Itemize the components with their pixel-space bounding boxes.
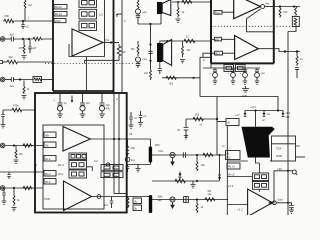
svg-text:1N: 1N [267, 113, 270, 116]
electrolytic C20 [136, 9, 147, 24]
Vcc rail [245, 110, 283, 112]
wire from A1 box to lower block [85, 57, 87, 94]
node C [28, 38, 30, 40]
capacitor C29 [288, 203, 294, 214]
mid-right box M1 [200, 57, 211, 96]
ground below R18 [12, 208, 17, 211]
resistor array boxes [69, 153, 87, 160]
op-amp A4 [248, 189, 273, 217]
resistor R12 (vertical, on box edge) [127, 139, 136, 156]
module box IC3 bottom edge [211, 62, 274, 64]
resistor R17 [23, 186, 33, 190]
op-amp A1 [72, 29, 103, 56]
pin box RL1 [54, 5, 67, 10]
capacitor C14 [126, 165, 130, 173]
terminal circle TP2 [292, 170, 297, 175]
svg-text:BAL: BAL [158, 195, 163, 199]
pin box A2-4 [44, 179, 56, 185]
relay S1b [79, 9, 97, 19]
resistor R32 [175, 179, 185, 183]
wire y41 to box [161, 40, 211, 42]
speaker LS2 top lead [160, 41, 168, 43]
speaker LS1 magnet [157, 2, 162, 14]
svg-text:10k: 10k [19, 152, 24, 156]
wire y155 [151, 154, 226, 156]
node D [19, 78, 21, 80]
resistor R15 [23, 144, 33, 148]
node U [184, 136, 188, 139]
cap chain 4 [255, 68, 266, 84]
cap chain 3 [240, 68, 248, 84]
test point TP1 [106, 163, 114, 166]
svg-text:VOL: VOL [158, 149, 164, 153]
transistor T1 [170, 152, 175, 165]
pin label W3 [211, 37, 235, 41]
node V [196, 154, 198, 156]
capacitor C15 (vertical) [104, 197, 113, 209]
pin box A2-3 [44, 171, 56, 177]
resistor R25 [166, 76, 176, 85]
capacitor C31 chain [138, 111, 147, 126]
heatsink Q1 (black) [242, 127, 275, 158]
svg-text:RL-2: RL-2 [58, 163, 65, 167]
svg-text:5W: 5W [296, 145, 300, 148]
diode D3 [282, 111, 291, 120]
black capacitor C13 [149, 139, 152, 165]
svg-text:RL(x): RL(x) [55, 12, 62, 16]
wire y172 [0, 171, 43, 173]
electrolytic C12 [99, 93, 110, 118]
wire A2b out extension [127, 195, 151, 197]
ground below wire y181 [191, 181, 196, 188]
node I [13, 187, 15, 189]
wire into box top [34, 93, 36, 110]
svg-text:IN+: IN+ [45, 133, 50, 137]
capacitor C23 [158, 69, 162, 75]
trimmer circle P2 [125, 157, 135, 162]
inner amp box A2 [43, 125, 104, 209]
A3a output wire [265, 6, 274, 8]
resistor R3 [33, 37, 53, 41]
IC box U2 [272, 136, 296, 161]
inline capacitor C27 [183, 152, 185, 157]
dotted separator line (right) [212, 25, 301, 27]
polarity arrow [71, 96, 73, 104]
bus line 1 [113, 93, 115, 194]
bottom rail wire [200, 97, 278, 111]
electrolytic C24 [203, 67, 260, 69]
wire to relay from pins [227, 176, 252, 178]
pin label RL3 [214, 10, 234, 14]
module box IC1 right edge [113, 0, 115, 93]
module box IC3 right edge [273, 0, 275, 63]
resistor R4 (vertical) [19, 40, 26, 54]
heatsink feed wire [255, 111, 257, 127]
ground below R19b [176, 19, 181, 22]
svg-text:1k5: 1k5 [201, 163, 206, 167]
resistor R30 [203, 153, 213, 157]
speaker LS2 magnet [157, 43, 163, 62]
relay link wire [258, 189, 260, 191]
input jog wire [203, 53, 211, 57]
svg-text:Ma: Ma [266, 2, 270, 6]
resistor R28 (vertical) [296, 52, 303, 67]
pin label RL4 [211, 51, 235, 55]
vertical link wire mid [216, 97, 218, 156]
module box IC1 left edge [52, 0, 54, 91]
heatsink bottom stub [256, 158, 260, 164]
vertical link wire [150, 24, 152, 70]
resistor R18 (vertical) [13, 188, 20, 206]
feedback wire below A1 [85, 58, 119, 64]
svg-text:4μ7: 4μ7 [10, 33, 15, 37]
pin bubble A4 [273, 201, 277, 205]
resistor R21 (vertical) [150, 70, 152, 80]
op-amp A2a [63, 127, 90, 152]
svg-text:+2μ: +2μ [142, 57, 147, 61]
resistor R31 (vertical) [196, 155, 205, 171]
electrolytic C22 [136, 57, 147, 68]
wire J3 to box [5, 145, 43, 147]
node W [196, 180, 198, 182]
svg-text:IN-: IN- [45, 143, 49, 147]
ground below R4 [22, 56, 27, 59]
module box IC1 bottom edge [53, 90, 114, 92]
pin box A2-2 [44, 142, 56, 148]
svg-text:adj: adj [158, 198, 162, 202]
svg-text:RL2: RL2 [215, 51, 220, 55]
svg-text:+Vcc: +Vcc [250, 105, 257, 109]
A2b output wire [92, 196, 127, 198]
capacitor C19 (vertical) [2, 188, 7, 204]
svg-text:p47: p47 [32, 46, 37, 50]
svg-text:RL2: RL2 [215, 11, 220, 15]
node A [22, 20, 24, 22]
ground below R24 [180, 60, 185, 63]
node Q [279, 5, 281, 7]
black capacitor C16 [149, 195, 152, 213]
resistor R34 (vertical) [196, 200, 204, 214]
resistor R2 (vertical, top edge) [24, 0, 32, 21]
resistor R19b (vertical) [177, 2, 185, 18]
op-amp A3b [235, 36, 259, 60]
node T [296, 50, 298, 52]
node H [13, 144, 15, 146]
wire to C14 [128, 164, 151, 166]
node L [149, 60, 151, 62]
svg-text:Wx2: Wx2 [55, 19, 61, 23]
A3b output wire [258, 49, 300, 52]
resistor R13 (vertical) [127, 197, 129, 209]
bus line 2 [118, 93, 120, 194]
wire to pin box B1 [217, 121, 226, 123]
svg-text:W-2: W-2 [58, 172, 64, 176]
wire right of heatsink [270, 160, 272, 162]
svg-text:x1.2: x1.2 [228, 184, 234, 188]
wire to terminal [288, 170, 292, 172]
capacitor C18 [7, 172, 10, 179]
svg-text:47k: 47k [19, 46, 24, 50]
wire y119 [186, 118, 217, 120]
svg-text:W2: W2 [215, 37, 220, 41]
op-amp A2b [64, 181, 92, 211]
svg-text:+1μ: +1μ [261, 72, 266, 75]
wire to A4 input [227, 204, 247, 206]
relay S4b [252, 182, 268, 190]
node Z [287, 170, 289, 172]
pin box B2 [226, 151, 241, 160]
feedback resistor R9 [117, 44, 121, 58]
relay S4a [252, 173, 268, 181]
diode D5 [218, 154, 221, 181]
node G [126, 138, 128, 140]
svg-text:+1.2: +1.2 [237, 208, 243, 212]
svg-text:8Ω: 8Ω [131, 47, 134, 51]
resistor R5 [7, 55, 53, 64]
resistor R27 (vertical) [295, 7, 297, 16]
coil box L3 [292, 17, 299, 27]
cap chain 1 [210, 68, 218, 84]
feedback bracket wire [272, 171, 289, 203]
input jack J3 [0, 143, 5, 148]
op-amp A1 output wire [103, 42, 119, 44]
svg-text:42n: 42n [10, 84, 15, 88]
pin bubble A3a [261, 5, 265, 9]
inline capacitor C28 [184, 197, 189, 203]
speaker LS2 cone [163, 40, 172, 66]
polarity arrow on wire y172 [34, 163, 36, 173]
pin box RL2 [54, 12, 67, 17]
svg-text:1M: 1M [28, 3, 32, 7]
diode D4 [178, 172, 181, 182]
chain feed from box [210, 63, 212, 68]
input jack J2 [0, 77, 5, 82]
node R19a [177, 1, 179, 3]
relay S2b-out wire [87, 167, 93, 171]
speaker LS2 bottom lead [159, 62, 161, 68]
wire from L3 to rail [288, 27, 296, 32]
wire left of heatsink [227, 160, 248, 162]
resistor R23 [184, 39, 195, 43]
bus joining wire [114, 193, 127, 195]
resistor R29 [193, 113, 203, 127]
svg-text:+2μ: +2μ [142, 10, 147, 14]
node F [118, 138, 120, 140]
svg-text:Vout: Vout [278, 198, 283, 202]
capacitor C3 (vertical) [28, 40, 37, 53]
diode D2 [263, 111, 270, 117]
speaker LS1 lead [160, 14, 162, 24]
svg-text:470: 470 [283, 10, 288, 14]
label lines [158, 195, 163, 203]
node M [166, 40, 168, 42]
wire from A3a output [274, 6, 300, 8]
capacitor C30 chain [129, 112, 138, 128]
resistor R1 [3, 14, 53, 23]
module box IC2 [35, 93, 127, 213]
arrowhead into A4 [268, 201, 272, 204]
node E [113, 138, 115, 140]
inline capacitor C21 [148, 51, 152, 53]
ground below wire [136, 165, 141, 172]
misc label specks [94, 20, 300, 163]
relay S2d [69, 170, 87, 178]
input jack J1 [0, 37, 5, 42]
svg-text:1μ: 1μ [64, 101, 67, 105]
node J [149, 23, 151, 25]
diode D1 [235, 111, 246, 118]
svg-text:W x2: W x2 [228, 173, 235, 177]
svg-text:R40: R40 [155, 144, 160, 147]
svg-text:Out: Out [105, 38, 109, 42]
node K [149, 43, 151, 45]
right rail [287, 32, 289, 216]
svg-text:x12: x12 [208, 193, 213, 196]
node R [293, 5, 295, 7]
svg-text:RLx2: RLx2 [55, 5, 62, 9]
node U2m [216, 118, 218, 120]
speaker LS1 cone [162, 0, 171, 16]
svg-text:+1V: +1V [235, 114, 240, 117]
transistor T2 [170, 197, 175, 209]
svg-text:2k2: 2k2 [9, 55, 14, 59]
A4 output wire [276, 202, 288, 204]
resistor R22 (vertical) [131, 41, 139, 56]
wire J4 to box [5, 187, 43, 189]
capacitor C25 [295, 68, 299, 79]
svg-text:470k: 470k [13, 104, 19, 108]
svg-text:82k: 82k [195, 113, 200, 117]
pin box W1 [54, 19, 66, 23]
label box L1 [133, 198, 142, 204]
wire y199.5 [152, 199, 228, 201]
op-amp A3a [234, 0, 261, 19]
resistor R14 [3, 104, 35, 112]
relay S2a [101, 165, 123, 171]
label box L2 [133, 205, 142, 211]
module box IC3 left edge [210, 0, 212, 63]
input jack J4 [0, 186, 5, 191]
svg-text:22n: 22n [144, 72, 149, 75]
pin box A2-1 [44, 132, 56, 138]
pin box B3 [227, 163, 240, 169]
node S [284, 50, 286, 52]
resistor R33 [205, 198, 215, 202]
ground below R16 [14, 160, 19, 163]
svg-text:TDA: TDA [276, 147, 282, 151]
svg-text:2k2: 2k2 [169, 82, 174, 86]
svg-text:680: 680 [5, 14, 10, 18]
svg-text:RL1: RL1 [45, 157, 51, 161]
wire speaker1 to IC3 [172, 1, 211, 3]
capacitor C1 [21, 21, 29, 29]
svg-text:4μ7: 4μ7 [86, 101, 91, 105]
wire to speaker bottom [138, 23, 161, 25]
svg-text:RL2: RL2 [45, 172, 51, 176]
svg-text:P.: P. [203, 59, 205, 62]
pin box A2-5 [44, 156, 56, 162]
svg-text:W-2: W-2 [45, 180, 51, 184]
svg-text:TAB: TAB [44, 197, 50, 201]
capacitor C26 [177, 119, 188, 138]
bus line right-block [226, 126, 228, 216]
dotted separator line (top) [45, 63, 135, 65]
svg-text:GND: GND [242, 94, 248, 98]
node P [277, 109, 279, 111]
svg-text:10k: 10k [131, 146, 136, 150]
cap chain 2 [228, 68, 236, 84]
svg-text:1/4: 1/4 [104, 203, 108, 207]
inner amp box A1 [69, 0, 105, 57]
svg-text:4k7: 4k7 [187, 48, 192, 52]
svg-text:40V: 40V [106, 107, 111, 111]
relay S1a [79, 0, 97, 7]
ground below R7 [22, 96, 27, 99]
resistor R20 (vertical from top) [137, 0, 139, 9]
A3a feedback wire [247, 9, 274, 32]
relay S3b [236, 65, 246, 72]
relay feed wire [258, 163, 260, 173]
node O [254, 109, 256, 111]
input plug P1 [0, 61, 7, 64]
wire right of U2 [296, 156, 306, 158]
resistor R19 [182, 0, 192, 4]
svg-text:1/2: 1/2 [94, 160, 98, 163]
resistor R24 (vertical) [182, 41, 192, 58]
pin box B1 [226, 119, 239, 126]
svg-text:2005: 2005 [276, 154, 282, 158]
relay S3a [224, 65, 234, 72]
node at A1 output [110, 41, 112, 43]
ground G5 [242, 86, 250, 98]
electrolytic C10 [54, 93, 67, 118]
node Y [287, 202, 289, 204]
label pair mid [208, 190, 213, 196]
capacitor C2 [5, 33, 33, 42]
relay S1c [79, 21, 97, 31]
node B [22, 38, 24, 40]
pin bubble at A2b [97, 195, 101, 199]
svg-text:log: log [131, 158, 135, 162]
A2a output wire [90, 138, 150, 140]
boxed resistor R6 [33, 76, 53, 82]
electrolytic C11 [80, 93, 91, 118]
capacitor C17 [1, 110, 6, 128]
capacitor C4 [5, 77, 33, 82]
bus line upper-right of IC1 [116, 0, 122, 93]
svg-text:IN: IN [227, 121, 230, 125]
resistor R7 (vertical) [23, 81, 30, 95]
resistor R26 (vertical) [279, 7, 288, 18]
resistor R16 (vertical) [15, 146, 23, 159]
wire y77.8 [162, 77, 200, 79]
wire y181 [152, 180, 219, 182]
relay S2b [101, 172, 123, 178]
node N [193, 77, 195, 79]
svg-text:RL+2: RL+2 [228, 165, 235, 169]
node X [196, 198, 198, 200]
relay S2c [69, 161, 87, 170]
svg-text:22μ: 22μ [106, 103, 111, 107]
svg-text:1/2: 1/2 [99, 13, 103, 17]
